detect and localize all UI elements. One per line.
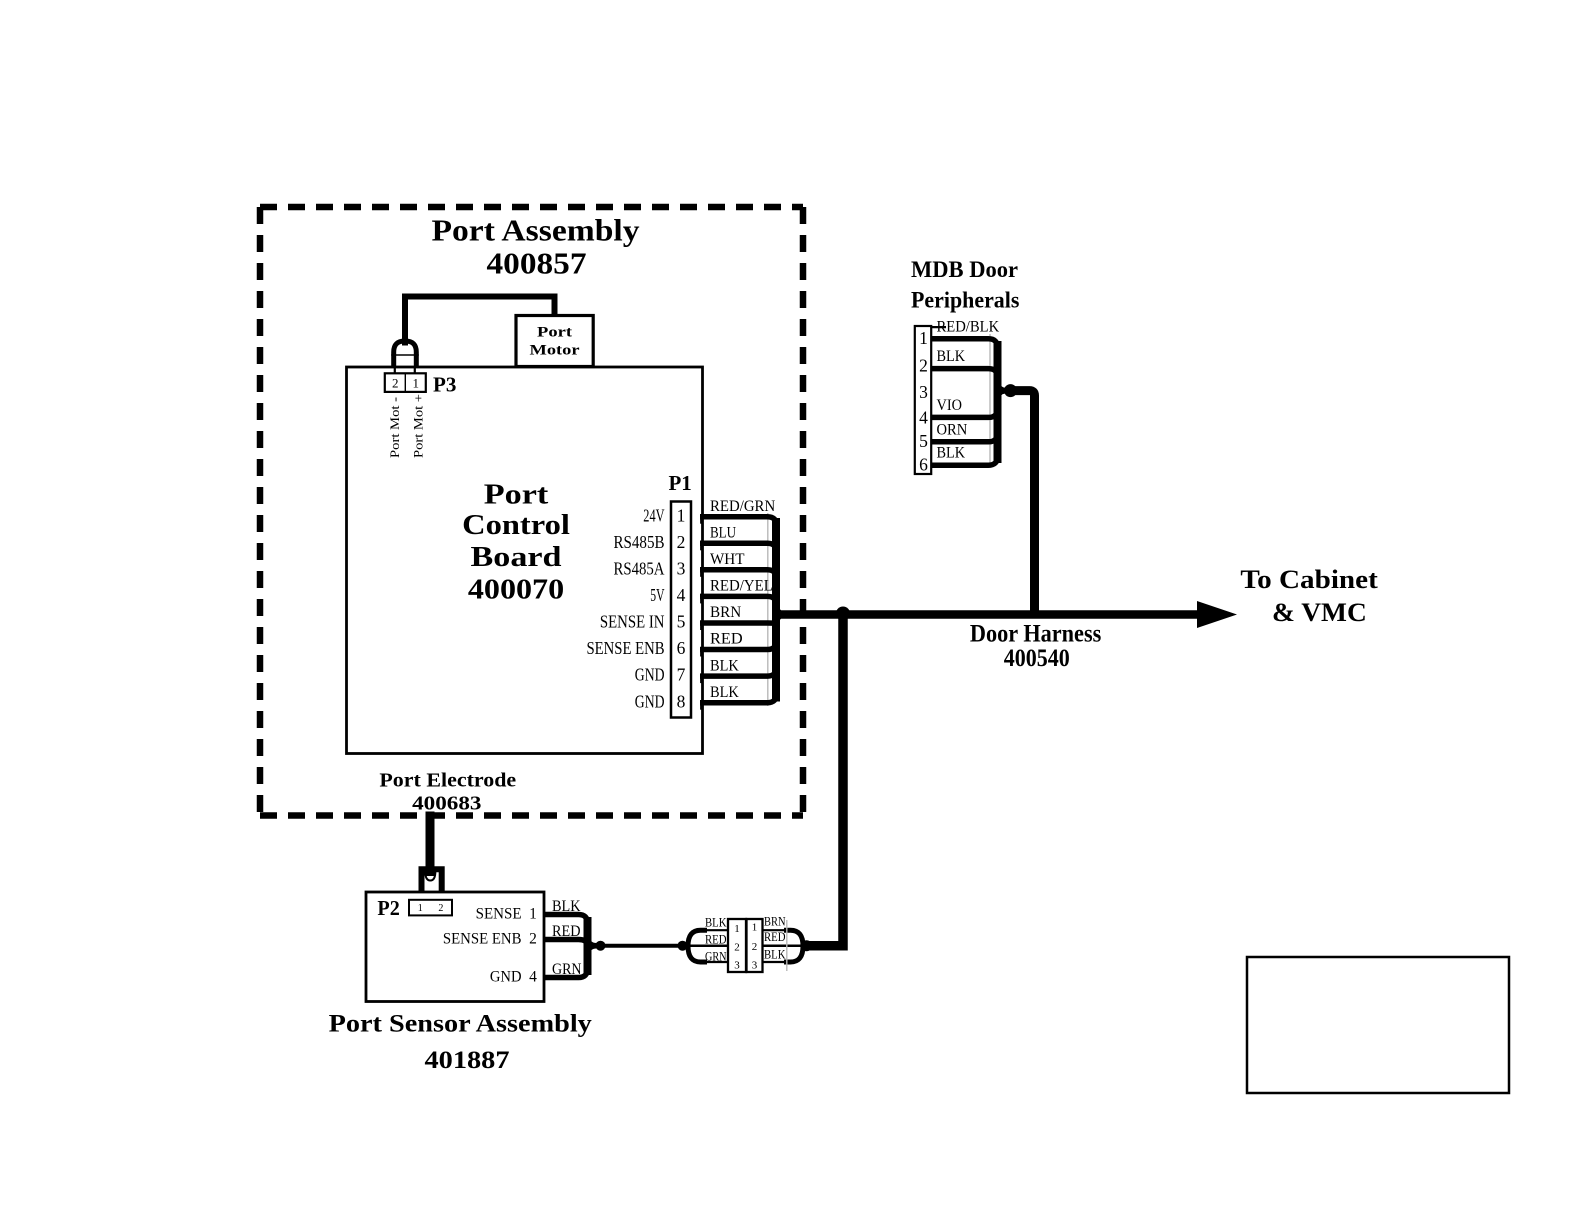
svg-text:P3: P3 <box>433 372 456 396</box>
svg-text:2: 2 <box>734 942 740 954</box>
svg-text:RED/BLK: RED/BLK <box>937 318 1000 335</box>
node P2 bundle <box>596 941 606 951</box>
port control board U1 400070 <box>347 367 703 754</box>
svg-text:BLK: BLK <box>764 947 786 962</box>
svg-text:2: 2 <box>392 375 399 390</box>
svg-text:2: 2 <box>919 356 928 376</box>
svg-text:GND: GND <box>635 691 665 711</box>
wire MDB pin 4 VIO <box>932 391 1007 418</box>
svg-text:BRN: BRN <box>710 604 742 621</box>
svg-text:1: 1 <box>413 375 420 390</box>
svg-text:SENSE ENB: SENSE ENB <box>587 638 665 658</box>
svg-text:Motor: Motor <box>530 342 580 358</box>
svg-text:6: 6 <box>677 638 686 658</box>
svg-text:SENSE: SENSE <box>476 906 522 923</box>
svg-text:Port Sensor Assembly: Port Sensor Assembly <box>329 1009 592 1038</box>
node junction main/branch <box>836 607 850 621</box>
wire MDB pin 6 BLK <box>932 391 1007 466</box>
wire P1 pin 7 BLK <box>700 615 786 677</box>
svg-text:BLK: BLK <box>937 348 966 365</box>
svg-text:MDB Door: MDB Door <box>911 257 1018 282</box>
inline connector pair <box>683 944 807 947</box>
svg-text:5V: 5V <box>650 585 664 605</box>
wire MDB pin 2 BLK <box>932 369 1007 391</box>
svg-text:4: 4 <box>529 969 537 986</box>
svg-text:2: 2 <box>677 532 686 552</box>
svg-text:4: 4 <box>677 585 686 605</box>
svg-text:2: 2 <box>752 941 758 953</box>
connector P2 header <box>409 900 452 916</box>
pointer line MDB pin1 <box>924 326 946 328</box>
svg-text:BLK: BLK <box>710 684 739 701</box>
svg-text:Port Mot +: Port Mot + <box>412 394 426 458</box>
svg-text:5: 5 <box>919 431 928 451</box>
svg-text:Port Electrode: Port Electrode <box>379 770 516 792</box>
wire P2 RED <box>544 940 597 946</box>
wire port electrode <box>426 812 435 877</box>
svg-text:2: 2 <box>438 903 443 914</box>
wire P2 BLK <box>544 915 597 946</box>
svg-text:1: 1 <box>919 328 928 348</box>
node inline connector left <box>678 941 688 951</box>
wire main harness to cabinet <box>776 610 1198 619</box>
svg-text:1: 1 <box>418 903 423 914</box>
svg-text:RED: RED <box>552 923 581 940</box>
svg-text:ORN: ORN <box>937 421 968 438</box>
svg-text:Port Mot -: Port Mot - <box>388 397 402 458</box>
node junction MDB <box>1004 384 1017 397</box>
svg-text:RED: RED <box>705 932 727 947</box>
wire P2 GRN <box>544 946 597 978</box>
svg-text:1: 1 <box>734 923 740 935</box>
svg-text:1: 1 <box>529 906 537 923</box>
svg-text:3: 3 <box>752 959 758 971</box>
wire P1 pin 5 BRN <box>700 615 786 624</box>
svg-text:P2: P2 <box>377 896 399 920</box>
wire P1 bundle bus <box>772 518 780 702</box>
legend box (empty) <box>1247 957 1509 1093</box>
svg-text:RED/GRN: RED/GRN <box>710 498 776 515</box>
svg-text:400070: 400070 <box>468 575 564 606</box>
svg-text:GRN: GRN <box>705 949 727 964</box>
svg-text:Port: Port <box>484 479 549 510</box>
port motor M1 <box>516 316 593 367</box>
wire MDB branch to main <box>1011 391 1035 618</box>
svg-text:WHT: WHT <box>710 551 745 568</box>
svg-text:SENSE IN: SENSE IN <box>600 612 665 632</box>
connector P3 <box>385 373 426 392</box>
node inline connector right <box>801 940 812 951</box>
pin label Port Mot + <box>412 394 426 458</box>
wire MDB bundle bus <box>994 341 1002 463</box>
svg-text:BLK: BLK <box>705 915 727 930</box>
wire P1 pin 1 RED/GRN <box>700 517 786 615</box>
svg-text:5: 5 <box>677 612 686 632</box>
svg-text:& VMC: & VMC <box>1272 598 1367 627</box>
wire P1 pin 4 RED/YEL <box>700 596 786 614</box>
wire branch down to sensor connector <box>806 612 843 946</box>
svg-text:GND: GND <box>490 969 522 986</box>
wire motor loop P3 to Port Motor <box>405 297 555 346</box>
svg-text:400683: 400683 <box>412 793 481 815</box>
svg-text:BLK: BLK <box>552 898 581 915</box>
port sensor assembly box 401887 <box>366 892 544 1002</box>
wire P1 pin 6 RED <box>700 615 786 650</box>
svg-text:Board: Board <box>471 542 563 573</box>
svg-text:RS485B: RS485B <box>614 532 665 552</box>
svg-text:BLK: BLK <box>710 657 739 674</box>
svg-text:4: 4 <box>919 408 928 428</box>
wire link to inline connector <box>601 944 683 948</box>
svg-text:BLU: BLU <box>710 525 736 542</box>
svg-text:Port Assembly: Port Assembly <box>432 214 640 248</box>
svg-text:VIO: VIO <box>937 397 963 414</box>
svg-text:To Cabinet: To Cabinet <box>1240 565 1378 594</box>
svg-text:Port: Port <box>537 325 572 341</box>
wire P1 pin 3 WHT <box>700 570 786 615</box>
svg-text:400540: 400540 <box>1004 645 1070 672</box>
svg-text:Peripherals: Peripherals <box>911 288 1019 313</box>
svg-text:RED: RED <box>764 929 786 944</box>
svg-text:GND: GND <box>635 665 665 685</box>
connector MDB door peripherals <box>915 326 931 474</box>
svg-text:3: 3 <box>919 382 928 402</box>
svg-text:SENSE ENB: SENSE ENB <box>443 931 522 948</box>
wire P2 bundle bus <box>584 917 592 975</box>
svg-text:6: 6 <box>919 455 928 475</box>
svg-text:400857: 400857 <box>487 247 587 281</box>
svg-text:P1: P1 <box>669 471 692 495</box>
connector plug symbol at P3 <box>394 341 417 368</box>
wire MDB pin 5 ORN <box>932 391 1007 442</box>
svg-text:BRN: BRN <box>764 914 786 929</box>
pin label Port Mot - <box>388 397 402 458</box>
wire P1 pin 8 BLK <box>700 615 786 703</box>
svg-text:401887: 401887 <box>425 1045 510 1074</box>
Port Assembly dashed enclosure 400857 <box>260 207 803 816</box>
svg-text:7: 7 <box>677 665 686 685</box>
svg-text:2: 2 <box>529 931 537 948</box>
svg-text:RED/YEL: RED/YEL <box>710 578 773 595</box>
svg-text:GRN: GRN <box>552 961 582 978</box>
svg-text:1: 1 <box>677 505 686 525</box>
svg-text:8: 8 <box>677 691 686 711</box>
wire P1 pin 2 BLU <box>700 543 786 614</box>
svg-text:RS485A: RS485A <box>614 558 665 578</box>
svg-text:BLK: BLK <box>937 445 966 462</box>
svg-text:Control: Control <box>462 510 570 541</box>
arrowhead to cabinet <box>1197 601 1237 628</box>
svg-text:24V: 24V <box>643 505 664 525</box>
svg-text:RED: RED <box>710 631 743 648</box>
svg-text:3: 3 <box>677 558 686 578</box>
svg-text:Door Harness: Door Harness <box>970 620 1102 647</box>
svg-text:3: 3 <box>734 959 740 971</box>
svg-text:1: 1 <box>752 922 758 934</box>
wire MDB pin 1 RED/BLK <box>932 339 1007 391</box>
connector plug symbol at P2 <box>422 869 442 892</box>
